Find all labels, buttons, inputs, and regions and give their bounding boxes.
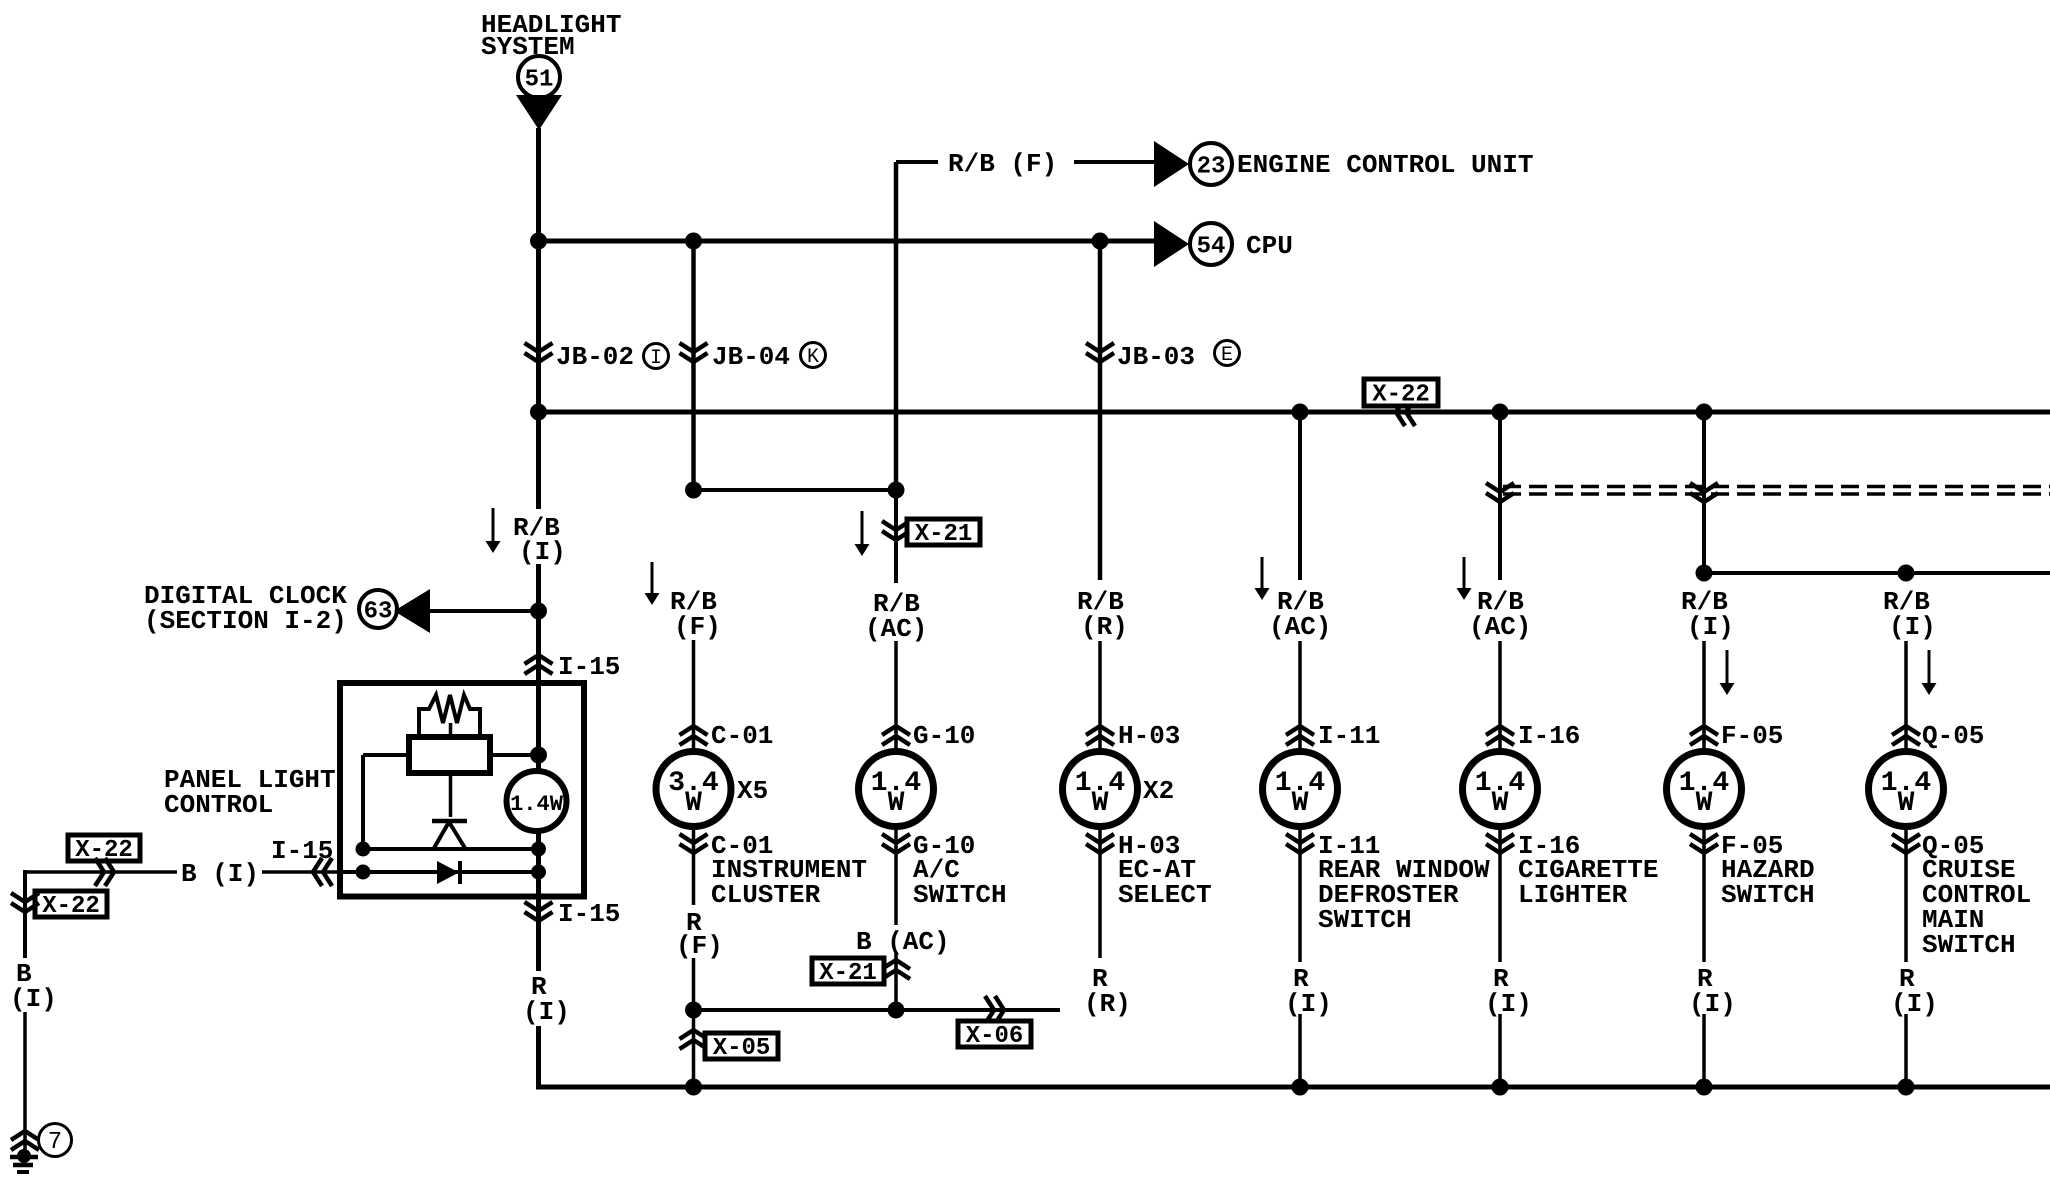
connector X-05 chevrons [680,1030,708,1049]
svg-text:(F): (F) [676,931,723,961]
arrow: flow direction down (col H) [1922,650,1937,695]
wire: col C to X-06 junction [894,952,898,1010]
node 54: CPU [1190,223,1293,265]
arrow to engine control unit (right triangle) [1154,141,1189,187]
label: I-16 above lamp [1518,721,1580,751]
label: INSTRUMENT CLUSTER [711,855,867,910]
arrow: flow direction down (col G) [1720,650,1735,695]
svg-text:23: 23 [1197,154,1226,181]
connector G-10 chevrons above lamp [882,726,910,745]
wire: transistor row y=849 [363,847,539,851]
node: HEADLIGHT SYSTEM label [481,10,621,62]
wire: col E to bottom bus [1298,1014,1302,1087]
label: I-11 below lamp [1318,831,1380,861]
label: R (I) col H [1891,964,1938,1019]
wire: left vertical to ground [23,1012,27,1157]
connector Q-05 chevrons below lamp [1892,834,1920,853]
connector Q-05 chevrons above lamp [1892,726,1920,745]
svg-text:X-06: X-06 [966,1023,1024,1050]
wire: main bus y=412 [536,410,2050,415]
lamp Q-05 1.4W [1869,752,1944,827]
node 7: ground reference circle [39,1124,72,1157]
junction at (538,611) [530,603,547,620]
connector X-06 chevrons [985,996,1004,1024]
connector X-22 on bus (chevrons) [1396,398,1415,426]
wire: B(I) feed y=872 left segment [25,870,177,874]
junction at (896,490) [888,482,905,499]
wire: col G below lamp [1702,827,1706,962]
svg-text:CPU: CPU [1246,231,1293,261]
wire: CPU feed line y=241 [539,239,1155,244]
connector C-01 chevrons below lamp [680,834,708,853]
wire: col A to bottom bus [536,1026,541,1089]
label: X-05 connector box [705,1033,778,1062]
arrow to digital clock (left triangle) [394,589,430,633]
junction at (693,1010) [685,1002,702,1019]
label: B (AC) col C [856,927,950,957]
arrow: flow direction down (col F) [1457,557,1472,600]
label: REAR WINDOW DEFROSTER SWITCH [1318,855,1490,935]
svg-text:LIGHTER: LIGHTER [1518,880,1628,910]
junction at (1906,1087) [1898,1079,1915,1096]
wire: col F text gap to lamp [1498,641,1502,752]
svg-text:G-10: G-10 [913,721,975,751]
junction at (1100,241) [1092,233,1109,250]
connector I-15 chevrons below panel box [525,902,553,921]
connector I-11 chevrons below lamp [1286,834,1314,853]
svg-text:X5: X5 [737,776,768,806]
wire: col H to bottom bus [1904,1014,1908,1087]
svg-text:1.4W: 1.4W [510,792,564,817]
svg-text:(I): (I) [1689,989,1736,1019]
svg-text:W: W [1898,788,1915,819]
arrow to CPU (right triangle) [1154,221,1189,267]
arrow from node 51 (down triangle) [516,95,562,130]
label: X-22 connector box on bus [1364,379,1438,409]
wire: col A below box [536,897,541,971]
wire: col C text gap to lamp [894,641,898,752]
label: X-22 connector box lower-left [35,891,107,920]
wire: col G text gap to lamp [1702,641,1706,752]
lamp H-03 1.4W [1063,752,1138,827]
connector JB-03 chevrons [1086,343,1114,362]
label: CRUISE CONTROL MAIN SWITCH [1922,855,2031,960]
svg-text:F-05: F-05 [1721,721,1783,751]
label: G-10 above lamp [913,721,975,751]
wire: main feed from headlight system down (x=538) [536,128,541,509]
svg-text:CONTROL: CONTROL [164,790,273,820]
svg-text:63: 63 [364,599,393,626]
wire: B(I) feed y=872 right segment [262,870,340,874]
svg-text:7: 7 [48,1129,62,1156]
label: R (I) col F [1485,964,1532,1019]
svg-text:I-15: I-15 [271,836,333,866]
label: EC-AT SELECT [1118,855,1212,910]
node 23: ENGINE CONTROL UNIT [1190,143,1533,185]
label: R (I) col E [1285,964,1332,1019]
label: X2 lamp quantity [1143,776,1174,806]
svg-text:ENGINE CONTROL UNIT: ENGINE CONTROL UNIT [1237,150,1533,180]
junction at (693,490) [685,482,702,499]
node 51: headlight system source circle [518,56,560,98]
wire: wiper box bottom to transistor [449,773,453,817]
label: R (I) col G [1689,964,1736,1019]
svg-text:W: W [1292,788,1309,819]
transistor legs [434,822,465,848]
connector C-01 chevrons above lamp [680,726,708,745]
label: I-11 above lamp [1318,721,1380,751]
lamp C-01 3.4W [656,752,731,827]
svg-text:I-15: I-15 [558,652,620,682]
label: I-16 below lamp [1518,831,1580,861]
wire: wiper box right to col A [490,753,539,757]
svg-text:(I): (I) [1687,612,1734,642]
label: Q-05 above lamp [1922,721,1984,751]
wire: dashed harness line lower [1503,492,2050,496]
lamp I-11 1.4W [1263,752,1338,827]
junction at (538,872) [531,865,546,880]
transistor base bar [432,819,467,824]
label: R (R) col D [1084,964,1131,1019]
label: C-01 below lamp [711,831,773,861]
connector X-21 chevrons upper [882,521,910,540]
connector I-16 chevrons above lamp [1486,726,1514,745]
svg-text:I-11: I-11 [1318,721,1380,751]
svg-text:(I): (I) [1285,989,1332,1019]
label: CIGARETTE LIGHTER [1518,855,1658,910]
label: HAZARD SWITCH [1721,855,1815,910]
svg-text:W: W [685,788,702,819]
junction at (896,1010) [888,1002,905,1019]
label: B (I) wire color [181,859,259,889]
label: I-15 below panel box [558,899,620,929]
svg-text:(I): (I) [1485,989,1532,1019]
wire: bottom bus y=1087 [536,1085,2050,1090]
arrow: flow direction down (col A) [486,508,501,553]
svg-text:B (AC): B (AC) [856,927,950,957]
connector chevrons on I-16 column at dashed crossover [1486,483,1514,502]
connector chevrons on F-05 column at dashed crossover [1690,483,1718,502]
wire: R/B (F) branch to engine control unit [896,160,1154,164]
svg-text:I: I [650,347,662,370]
svg-text:(I): (I) [1889,612,1936,642]
label: H-03 above lamp [1118,721,1180,751]
lamp 1.4W inside panel box [507,771,567,831]
wire: dashed harness line upper [1503,485,2050,489]
label: R/B (R) col D [1077,587,1128,642]
svg-text:(I): (I) [523,997,570,1027]
svg-text:C-01: C-01 [711,721,773,751]
connector X-21 chevrons lower [882,960,910,979]
wire: col B to bottom bus [692,958,696,1087]
wire: JB-04 column x=693 from CPU line down to junction y=490 [691,241,696,490]
label: F-05 above lamp [1721,721,1783,751]
svg-text:R/B (F): R/B (F) [948,149,1057,179]
svg-text:(I): (I) [10,984,57,1014]
svg-text:(SECTION I-2): (SECTION I-2) [144,606,347,636]
label: Q-05 below lamp [1922,831,1984,861]
rheostat resistor zigzag [419,695,480,737]
label: R/B (F) col B [670,587,721,642]
wire: col D below lamp [1098,827,1102,958]
svg-text:X-05: X-05 [713,1035,771,1062]
svg-text:W: W [888,788,905,819]
label: DIGITAL CLOCK (SECTION I-2) [144,581,347,636]
wire: col E from bus to text gap [1298,412,1302,580]
junction at (538,755) [530,747,547,764]
svg-text:I-16: I-16 [1518,721,1580,751]
junction at (363,872) [356,865,371,880]
junction at (538,849) [531,842,546,857]
wire: col F from bus to text gap [1498,412,1502,580]
wire: col C chevron to text gap [894,490,898,583]
junction at (1704,1087) [1696,1079,1713,1096]
svg-text:X-21: X-21 [915,521,973,548]
connector chevrons at ground [11,1131,39,1150]
connector I-11 chevrons above lamp [1286,726,1314,745]
svg-text:(AC): (AC) [1269,612,1331,642]
wire: branch to digital clock y=611 [430,609,539,613]
label: R/B (AC) col F [1469,587,1531,642]
svg-text:JB-02: JB-02 [556,342,634,372]
svg-text:I-15: I-15 [558,899,620,929]
wire: X-06 link y=1010 [694,1008,1061,1012]
svg-text:SWITCH: SWITCH [1318,905,1412,935]
wire: col E text gap to lamp [1298,641,1302,752]
wire: left branch vertical x=25 [23,870,27,958]
label: R (F) col B [676,908,723,961]
label: B (I) on left vertical [10,959,57,1014]
svg-text:W: W [1092,788,1109,819]
wire: col F to bottom bus [1498,1014,1502,1087]
label: A/C SWITCH [913,855,1007,910]
label: JB-04 (K) [712,342,826,372]
svg-text:SWITCH: SWITCH [1922,930,2016,960]
junction at (1500,412) [1492,404,1509,421]
diode D1 [437,861,460,884]
junction at (693,1087) [685,1079,702,1096]
arrow: flow direction down (col B) [645,562,660,605]
wire: col H text gap to lamp [1904,641,1908,752]
junction at (1500,1087) [1492,1079,1509,1096]
wire: diode row y=872 inside box [343,870,539,874]
svg-text:(R): (R) [1084,989,1131,1019]
connector I-15 chevrons at box entry (left) [313,858,332,886]
connector I-16 chevrons below lamp [1486,834,1514,853]
svg-text:B (I): B (I) [181,859,259,889]
label: I-15 above panel box [558,652,620,682]
svg-text:W: W [1492,788,1509,819]
wire: col B text gap to lamp [692,640,696,752]
svg-text:CLUSTER: CLUSTER [711,880,821,910]
connector X-22 chevrons on B(I) wire (right) [95,858,114,886]
label: C-01 above lamp [711,721,773,751]
connector I-15 chevrons above panel box [525,655,553,674]
junction at (1704,412) [1696,404,1713,421]
wire: R/B(F) column x=896 from y=162 down to y=490 [894,162,899,490]
connector G-10 chevrons below lamp [882,834,910,853]
svg-text:(F): (F) [674,612,721,642]
label: R/B (I) col H [1883,587,1936,642]
svg-text:JB-04: JB-04 [712,342,790,372]
label: X-21 connector box lower [812,958,884,987]
svg-text:SELECT: SELECT [1118,880,1212,910]
svg-text:(R): (R) [1081,612,1128,642]
wire: col E below lamp [1298,827,1302,962]
junction at (538,241) [530,233,547,250]
label: X5 lamp quantity [737,776,768,806]
svg-text:JB-03: JB-03 [1117,342,1195,372]
label: R/B (I) col G [1681,587,1734,642]
svg-text:(I): (I) [1891,989,1938,1019]
svg-text:54: 54 [1197,234,1226,261]
wire: JB-03 column x=1100 from CPU line down [1098,241,1103,580]
svg-text:51: 51 [525,67,554,94]
wire: col A through panel box [536,680,541,897]
svg-text:K: K [807,346,819,369]
wire: col H below lamp [1904,827,1908,962]
wire: JB-02 column x=538 from CPU line to bus [536,241,541,412]
wire: col F below lamp [1498,827,1502,962]
svg-text:SWITCH: SWITCH [1721,880,1815,910]
lamp G-10 1.4W [859,752,934,827]
connector F-05 chevrons above lamp [1690,726,1718,745]
connector JB-04 chevrons [680,343,708,362]
label: X-22 connector box upper-left [68,835,140,864]
arrow: flow direction down (col E) [1255,557,1270,600]
junction at (1300,412) [1292,404,1309,421]
connector X-22 chevrons on left vertical [11,893,39,912]
label: R/B (AC) col C [865,589,927,644]
arrow: flow direction down (col C) [855,511,870,556]
junction at (1704,573) [1696,565,1713,582]
connector F-05 chevrons below lamp [1690,834,1718,853]
wire: col D text gap to lamp [1098,641,1102,752]
svg-text:(AC): (AC) [1469,612,1531,642]
svg-text:X-22: X-22 [1372,382,1430,409]
wire: wiper box left and down [363,755,409,849]
svg-text:W: W [1696,788,1713,819]
svg-text:Q-05: Q-05 [1922,721,1984,751]
connector H-03 chevrons below lamp [1086,834,1114,853]
label: R/B (AC) col E [1269,587,1331,642]
svg-text:X-22: X-22 [42,893,100,920]
junction at (1300,1087) [1292,1079,1309,1096]
node 63: digital clock circle [359,590,397,628]
label: G-10 below lamp [913,831,975,861]
junction at (538,412) [530,404,547,421]
label: JB-02 (I) [556,342,669,372]
svg-text:X2: X2 [1143,776,1174,806]
label: R/B (F) wire color [948,149,1057,179]
connector JB-02 chevrons [525,343,553,362]
svg-text:SWITCH: SWITCH [913,880,1007,910]
svg-text:(AC): (AC) [865,614,927,644]
lamp I-16 1.4W [1463,752,1538,827]
label: JB-03 (E) [1117,341,1240,373]
connector H-03 chevrons above lamp [1086,726,1114,745]
wire: col G to bottom bus [1702,1014,1706,1087]
svg-text:H-03: H-03 [1118,721,1180,751]
svg-text:E: E [1221,344,1233,367]
rheostat wiper box [409,737,490,773]
junction at (363,849) [356,842,371,857]
label: R/B (I) col A [513,513,566,567]
lamp F-05 1.4W [1667,752,1742,827]
junction at (693,241) [685,233,702,250]
wire: col B below lamp [692,827,696,905]
label: X-21 connector box upper [907,519,980,548]
label: H-03 below lamp [1118,831,1180,861]
wire: col C below lamp [894,827,898,925]
junction at (1906,573) [1898,565,1915,582]
wire: link y=573 from x=1704 to right edge [1704,571,2050,575]
wire: col A from text gap down into panel box [536,564,541,682]
label: PANEL LIGHT CONTROL [164,765,336,820]
wire: col H from y=573 to text gap [1904,573,1908,580]
ground symbol [10,1149,38,1172]
label: F-05 below lamp [1721,831,1783,861]
wire: link y=490 from x=693 to x=896 [694,488,897,492]
svg-text:(I): (I) [519,537,566,567]
svg-text:X-21: X-21 [819,960,877,987]
label: I-15 at box left entry [271,836,333,866]
wire: col G from bus through dashed crossover to y=573 [1702,412,1706,580]
label: R (I) col A [523,972,570,1027]
panel light control unit box [340,683,584,897]
label: X-06 connector box [958,1021,1031,1050]
